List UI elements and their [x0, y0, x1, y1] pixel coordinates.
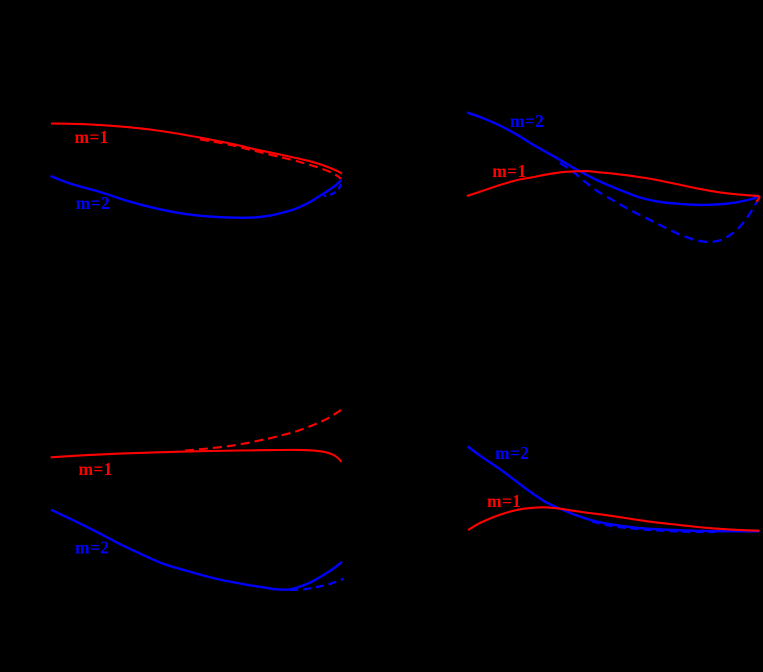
panel 4 curve m=1 solid	[468, 507, 760, 530]
panel 2 curve m=1 end hook	[756, 196, 760, 201]
panel 3 curve m=1 dashed	[185, 410, 341, 451]
panel 3 curve m=1 solid	[51, 450, 342, 462]
panel 3 curve m=2 solid	[51, 510, 342, 590]
svg-text:m=1: m=1	[75, 127, 109, 147]
svg-text:m=2: m=2	[75, 537, 109, 557]
panel 1 curve m=2 dashed hook	[324, 184, 341, 196]
panel 4 curve m=2 solid	[468, 446, 760, 531]
svg-text:m=2: m=2	[495, 443, 529, 463]
svg-text:m=2: m=2	[510, 111, 544, 131]
svg-text:m=2: m=2	[76, 193, 110, 213]
svg-text:m=1: m=1	[79, 459, 113, 479]
panel 2 curve m=1 solid	[467, 171, 760, 196]
svg-text:m=1: m=1	[492, 161, 526, 181]
svg-text:m=1: m=1	[487, 491, 521, 511]
panel 2 curve m=2 dashed	[560, 163, 759, 242]
panel 4 curve m=2 dashed	[592, 522, 715, 533]
panel 1 curve m=1 dashed	[200, 139, 341, 178]
panel 1 curve m=1 solid	[51, 124, 342, 174]
panel 1 curve m=2 solid	[51, 176, 342, 218]
panel 2 curve m=2 solid	[467, 113, 760, 205]
panel 3 curve m=2 dashed	[290, 579, 344, 590]
